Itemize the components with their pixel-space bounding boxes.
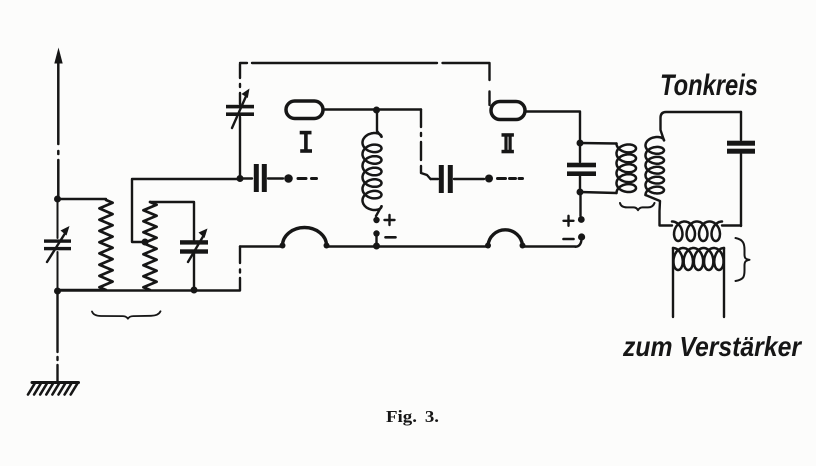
node B1 bus junction: [373, 243, 380, 250]
wire tube I plate lead: [323, 108, 421, 110]
wire C3 to top bus (dash-dot): [239, 64, 241, 104]
wire C2 bottom: [193, 254, 195, 291]
label I: [300, 131, 312, 153]
tube U2: [491, 102, 525, 120]
node B (ground-side junction): [54, 288, 61, 295]
svg-text:Tonkreis: Tonkreis: [660, 69, 758, 102]
svg-text:zum Verstärker: zum Verstärker: [622, 331, 803, 362]
capacitor C1 (antenna variable capacitor): [44, 202, 71, 288]
wire C6 to battery B2: [579, 195, 581, 216]
capacitor C4 (grid coupling capacitor): [240, 164, 283, 192]
coil L3 (plate choke): [363, 133, 382, 210]
capacitor C6 (telephone/blocking capacitor): [567, 143, 596, 192]
node grid lead dot of tube II (dashed grid connection): [485, 175, 523, 183]
capacitor C3 (feedback variable capacitor): [226, 89, 254, 129]
brace under L1 L2: [92, 311, 161, 318]
node C6 top junction: [577, 140, 584, 147]
wire plate to C5 (dash-dot): [421, 110, 431, 180]
wire antenna junction to L1 top: [58, 198, 107, 200]
wire Tonkreis left side: [646, 195, 673, 226]
node L2 grid tap: [142, 239, 149, 246]
coil L7 (pickup coil to amplifier): [673, 248, 724, 270]
wire T1 primary bottom lead: [580, 192, 617, 193]
wire C3 to grid node: [239, 117, 241, 178]
label Tonkreis: [660, 69, 758, 102]
brace under T1: [620, 203, 655, 210]
wire grid tap to coupling node: [132, 179, 240, 242]
brace right (coupling indicator): [736, 238, 750, 281]
wire bottom battery bus: [240, 245, 576, 247]
tube U1: [286, 101, 323, 119]
node grid coupling junction: [237, 175, 244, 182]
transformer T1 primary coil L4: [617, 144, 637, 194]
wire L7 right lead: [723, 248, 725, 317]
label zum Verstaerker: [622, 331, 803, 362]
svg-text:Fig. 3.: Fig. 3.: [386, 407, 439, 426]
node C6 bottom junction: [577, 189, 584, 196]
wire top feedback bus: [240, 63, 490, 101]
wire L1 bottom to ground bus: [58, 289, 107, 291]
node A (antenna tap junction): [54, 196, 61, 203]
wire crossover hump 1: [280, 228, 330, 249]
ground: [28, 383, 79, 395]
Tonkreis coil L6: [672, 222, 722, 242]
node C2-bottom junction: [191, 287, 198, 294]
battery B1 terminals: [373, 217, 379, 246]
node plate junction: [373, 107, 380, 114]
label II: [502, 133, 514, 153]
wire riser to battery bus: [239, 247, 241, 291]
wire L3 bottom stub: [376, 206, 382, 216]
wire bottom bus left section: [58, 289, 241, 291]
capacitor C7 (Tonkreis capacitor): [727, 112, 755, 226]
wire L3 top stub: [377, 110, 382, 137]
coil L2 (secondary, zigzag): [143, 202, 156, 290]
coil L1 (antenna coil, zigzag): [99, 200, 112, 290]
node grid lead dot of tube I (dashed grid connection): [284, 174, 316, 183]
transformer T1 secondary coil L5: [646, 137, 665, 195]
wire Tonkreis top side: [661, 112, 742, 140]
battery B2 terminals: [576, 216, 586, 247]
wire Tonkreis bottom right: [722, 224, 741, 226]
wire L2 top to C2: [150, 202, 194, 240]
wire to ground: [56, 291, 58, 381]
wire L7 left lead: [672, 248, 674, 317]
capacitor C2 (tuning variable capacitor): [180, 229, 208, 263]
label - (B1 minus): [386, 236, 396, 239]
capacitor C5 (grid coupling capacitor 2): [431, 165, 485, 193]
wire T1 primary top lead: [580, 142, 617, 145]
wire tube II plate lead: [526, 112, 580, 144]
wire crossover hump 2: [485, 230, 526, 249]
label + (B2 plus): [564, 216, 574, 226]
label + (B1 plus): [385, 215, 395, 225]
label Fig. 3.: [386, 407, 439, 426]
label - (B2 minus): [564, 238, 574, 241]
wire top bus to tube II: [488, 101, 490, 105]
antenna: [54, 48, 62, 200]
